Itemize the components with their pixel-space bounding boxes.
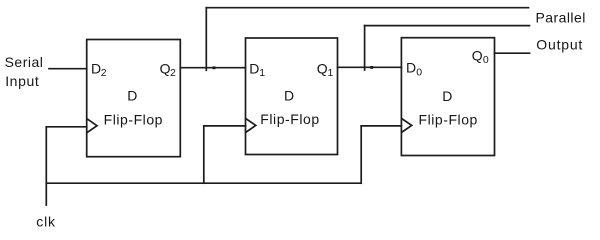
svg-text:Q: Q bbox=[317, 60, 328, 76]
pin D0 of U3 bbox=[406, 60, 422, 79]
wire: clk riser at U3 bbox=[360, 126, 362, 183]
junction on Q2 wire bbox=[213, 66, 216, 69]
wire: Q0 output bbox=[495, 52, 530, 54]
svg-text:Output: Output bbox=[536, 37, 583, 53]
svg-text:Serial: Serial bbox=[5, 54, 44, 70]
svg-text:Flip-Flop: Flip-Flop bbox=[260, 111, 319, 127]
svg-text:0: 0 bbox=[483, 54, 489, 66]
svg-text:0: 0 bbox=[416, 66, 422, 78]
pin Q0 of U3 bbox=[472, 47, 489, 66]
svg-text:Parallel: Parallel bbox=[536, 10, 586, 26]
svg-text:Flip-Flop: Flip-Flop bbox=[104, 112, 163, 128]
wire: clk bus (bottom) bbox=[46, 182, 361, 184]
pin D2 of U1 bbox=[91, 60, 107, 79]
pin Q1 of U2 bbox=[317, 60, 334, 79]
wire: Q1 to D0 bbox=[338, 66, 402, 68]
svg-text:1: 1 bbox=[328, 67, 334, 79]
pin D1 of U2 bbox=[249, 60, 265, 79]
wire: clk into U3 clock pin bbox=[361, 125, 401, 127]
clock input triangle of U1 bbox=[88, 119, 97, 132]
svg-text:D: D bbox=[127, 87, 137, 103]
svg-text:Q: Q bbox=[160, 60, 171, 76]
wire: Q2 to D1 bbox=[180, 67, 245, 69]
svg-text:D: D bbox=[91, 60, 101, 76]
wire: clk riser at U1 down to clk terminal bbox=[45, 127, 47, 205]
svg-text:D: D bbox=[442, 88, 452, 104]
wire: clk riser at U2 bbox=[203, 126, 205, 183]
D flip-flop U1 (stage 2) bbox=[87, 40, 181, 157]
svg-text:2: 2 bbox=[170, 67, 176, 79]
svg-text:1: 1 bbox=[259, 67, 265, 79]
D flip-flop U2 (stage 1) bbox=[246, 38, 338, 155]
svg-text:Flip-Flop: Flip-Flop bbox=[418, 112, 477, 128]
clock input triangle of U3 bbox=[402, 119, 411, 132]
wire: clk into U2 clock pin bbox=[204, 125, 246, 127]
svg-text:D: D bbox=[249, 60, 259, 76]
svg-text:Input: Input bbox=[5, 73, 39, 89]
svg-text:Q: Q bbox=[472, 47, 483, 63]
svg-text:2: 2 bbox=[101, 67, 107, 79]
wire: clk into U1 clock pin bbox=[46, 126, 86, 128]
wire: parallel output line Q1 bbox=[365, 25, 530, 27]
junction on Q1 wire bbox=[370, 66, 373, 69]
pin Q2 of U1 bbox=[160, 60, 176, 79]
svg-text:D: D bbox=[284, 87, 294, 103]
wire: Serial Input to D2 bbox=[49, 68, 87, 70]
D flip-flop U3 (stage 0) bbox=[401, 38, 494, 156]
wire: Q1 branch vertical riser bbox=[364, 26, 366, 70]
wire: parallel output line Q2 (top) bbox=[206, 7, 528, 9]
wire: Q2 branch vertical riser bbox=[205, 8, 207, 71]
svg-text:D: D bbox=[406, 60, 416, 76]
clock input triangle of U2 bbox=[246, 119, 255, 132]
svg-text:clk: clk bbox=[36, 214, 56, 230]
